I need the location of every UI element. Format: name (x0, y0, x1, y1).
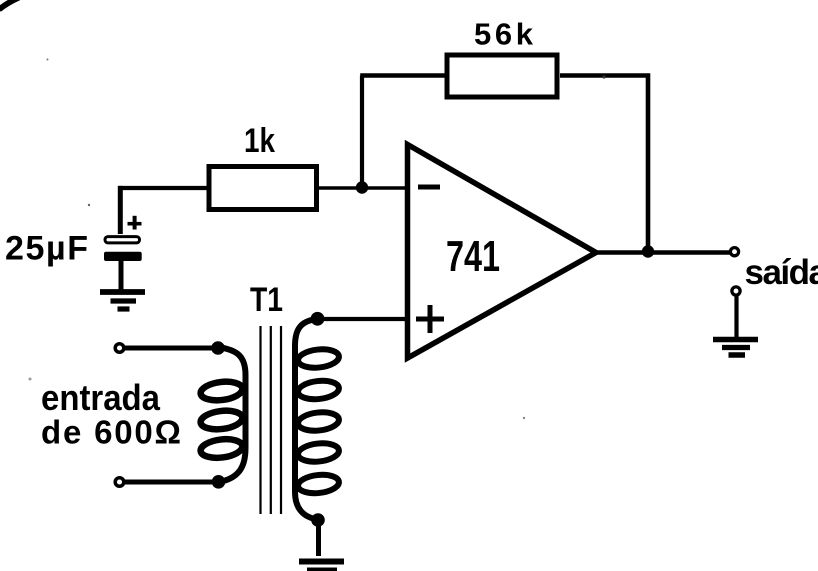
wire: primary top lead (124, 346, 214, 351)
inductor: primary loop 1 (200, 380, 244, 403)
svg-text:entrada: entrada (41, 377, 161, 418)
wire: feedback left (inverting node up and over to 56k) (360, 76, 364, 191)
inductor: secondary loop 3 (297, 410, 340, 432)
wire: saida terminal to ground (734, 296, 738, 338)
wire: secondary bottom to ground (316, 520, 321, 556)
wire: primary bottom lead (124, 480, 212, 485)
terminal: saida output circle (730, 248, 738, 256)
inductor: primary loop 2 (200, 409, 244, 432)
svg-text:saída: saída (745, 253, 818, 292)
inductor: secondary loop 1 (297, 347, 340, 369)
node: primary top dot (211, 341, 225, 355)
node: output junction (642, 245, 654, 257)
node: primary bottom dot (212, 475, 226, 489)
terminal: primary top (115, 344, 124, 353)
inductor: secondary loop 4 (297, 441, 340, 463)
inductor: secondary loop 5 (297, 473, 340, 495)
resistor 1k (209, 167, 317, 210)
op-amp minus input symbol (418, 185, 440, 190)
svg-text:741: 741 (446, 232, 500, 281)
ground (transformer secondary, cropped at bottom) (299, 562, 344, 571)
ground (output) (713, 340, 758, 356)
inductor: primary loop 3 (200, 437, 244, 460)
capacitor C 25uF bottom plate (104, 252, 142, 261)
capacitor C 25uF polarity + (128, 222, 142, 226)
terminal: saida ground-side circle (732, 287, 740, 295)
svg-text:56k: 56k (474, 17, 534, 52)
inductor: secondary loop 2 (297, 379, 340, 401)
op-amp U1 741 triangle (408, 145, 597, 359)
wire: input corner (down to capacitor) (118, 186, 208, 190)
wire: 1k to inverting input (317, 186, 407, 190)
svg-text:de 600Ω: de 600Ω (41, 414, 181, 451)
transformer core (261, 326, 282, 514)
inductor: primary winding spine (217, 347, 246, 483)
node: secondary bottom dot (311, 513, 325, 527)
svg-text:1k: 1k (244, 122, 275, 160)
svg-text:25µF: 25µF (5, 229, 88, 267)
capacitor C 25uF top plate (105, 237, 140, 243)
wire: capacitor to ground (119, 261, 124, 290)
terminal: primary bottom (115, 478, 124, 487)
wire: op-amp output (596, 250, 730, 255)
node: inverting input junction (356, 181, 368, 193)
inductor: secondary winding spine (295, 319, 318, 520)
node: secondary top dot (311, 312, 325, 326)
wire: secondary top to non-inverting input (317, 317, 407, 321)
ground (below capacitor) (100, 292, 145, 309)
op-amp plus input symbol (416, 305, 444, 333)
svg-text:T1: T1 (250, 281, 283, 319)
resistor 56k (447, 55, 557, 97)
wire: feedback right (56k to output node) (560, 76, 648, 252)
